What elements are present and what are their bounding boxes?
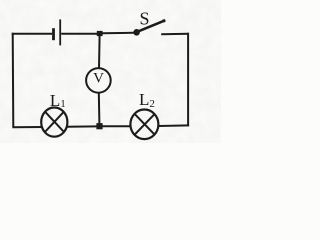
battery cell: long thin positive plate [59, 19, 61, 45]
wire voltmeter down to node B [98, 92, 101, 123]
lamp L2 cross stroke 1 [135, 114, 155, 135]
node A (top junction) [97, 31, 103, 36]
wire switch contact to top-right corner [161, 33, 189, 35]
lamp L2 cross stroke 2 [135, 114, 155, 135]
node B (bottom junction) [96, 123, 102, 129]
lamp L2 bulb circle [130, 110, 158, 140]
wire node B to lamp L2 [102, 125, 130, 127]
switch S pivot dot [133, 29, 140, 36]
wire left side [12, 33, 15, 127]
battery cell: short thick negative plate [52, 28, 55, 40]
wire battery to node A [61, 33, 97, 35]
wire top-left to battery [12, 33, 53, 35]
wire bottom-left corner to lamp L1 [12, 126, 42, 128]
wire lamp L2 to bottom-right corner [159, 124, 190, 127]
voltmeter V1 circle [86, 68, 111, 93]
switch S lever tip blob [162, 19, 165, 22]
switch S lever (open) [137, 20, 165, 32]
svg-text:V: V [93, 71, 104, 87]
wire lamp L1 to node B [67, 125, 97, 127]
lamp L1 cross stroke 1 [45, 112, 64, 132]
svg-text:S: S [140, 9, 150, 29]
wire right side [187, 33, 189, 127]
wire node A to switch pivot [102, 32, 133, 35]
lamp L1 cross stroke 2 [45, 112, 64, 132]
wire node A down to voltmeter [98, 36, 101, 69]
lamp L1 bulb circle [41, 108, 67, 137]
